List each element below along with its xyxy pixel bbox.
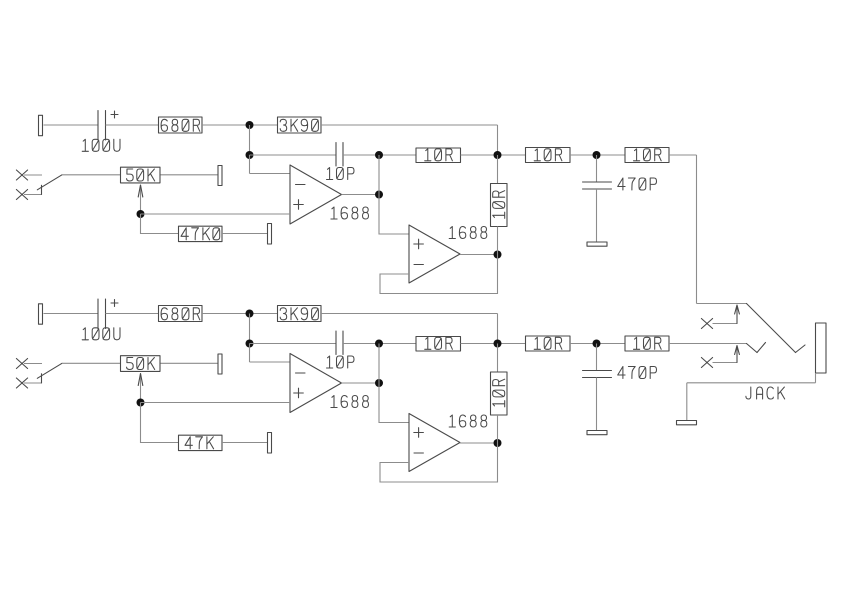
- wire to jack tip: [669, 154, 697, 156]
- node Ea: [375, 191, 383, 199]
- wiper arrow: [140, 374, 142, 403]
- node Ba: [246, 151, 254, 159]
- wire: [161, 174, 219, 176]
- wire: [460, 254, 498, 256]
- wire: [570, 343, 625, 345]
- node Ca: [375, 151, 383, 159]
- resistor R4 10R: [526, 148, 571, 163]
- input terminal J2: [39, 304, 43, 324]
- switch blade: [37, 363, 62, 378]
- wire: [342, 194, 380, 196]
- jack sleeve: [816, 323, 827, 373]
- capacitor C4 100U: [97, 299, 99, 329]
- resistor R14 10R vertical: [497, 344, 499, 373]
- switch S2 contact X: [16, 359, 27, 369]
- switch blade: [37, 175, 62, 190]
- wire: [460, 442, 498, 444]
- node Wb: [137, 399, 145, 407]
- potentiometer R7 50K: [121, 167, 161, 183]
- wire: [141, 214, 179, 234]
- wire: [141, 403, 179, 443]
- wire: [321, 313, 498, 315]
- wire: [497, 125, 499, 155]
- wire: [41, 374, 43, 383]
- node Aa: [246, 121, 254, 129]
- terminal: [218, 166, 222, 186]
- wire: [249, 155, 251, 174]
- wire: [161, 362, 219, 364]
- node Fa: [593, 151, 601, 159]
- resistor R1 680R: [159, 117, 203, 133]
- wire: [62, 174, 120, 176]
- wire: [249, 344, 251, 363]
- wire: [41, 185, 43, 194]
- terminal: [268, 224, 272, 245]
- wire sleeve to ground: [815, 373, 817, 383]
- resistor R6 10R vertical: [497, 155, 499, 184]
- wire: [713, 323, 738, 325]
- capacitor C3 470P: [596, 155, 598, 182]
- node Gb: [494, 439, 502, 447]
- wire: [24, 194, 42, 196]
- wire feedback: [380, 255, 498, 294]
- ground: [587, 242, 607, 246]
- node Da: [494, 151, 502, 159]
- node Cb: [375, 340, 383, 348]
- switch S1 contact X: [16, 170, 27, 180]
- resistor R12 10R: [526, 336, 571, 351]
- resistor R10 3K90: [278, 306, 322, 322]
- input terminal J1: [39, 115, 43, 135]
- jack tip contact: [747, 304, 796, 353]
- resistor R11 10R: [416, 337, 461, 352]
- wire to jack ring: [669, 343, 747, 345]
- wire: [24, 382, 42, 384]
- wire: [343, 154, 416, 156]
- wire: [202, 313, 278, 315]
- wire: [379, 195, 409, 235]
- resistor R5 10R: [625, 148, 669, 163]
- wire: [343, 343, 416, 345]
- wire: [44, 124, 99, 126]
- op-amp U3 1688: [290, 354, 342, 413]
- node Wa: [137, 210, 145, 218]
- switch S1 contact X: [16, 190, 27, 200]
- wire: [713, 362, 738, 364]
- capacitor C1 100U: [97, 111, 99, 141]
- wire: [321, 124, 498, 126]
- node Db: [494, 340, 502, 348]
- wire: [461, 343, 526, 345]
- wire: [24, 174, 42, 176]
- wire: [249, 125, 251, 155]
- wire: [379, 383, 409, 423]
- wire: [106, 313, 159, 315]
- wire: [202, 124, 278, 126]
- op-amp U2 1688 buffer: [409, 225, 460, 283]
- jack ring switch terminal X: [701, 358, 712, 368]
- wire: [24, 363, 42, 365]
- capacitor C5 10P: [335, 331, 337, 355]
- ground: [677, 421, 697, 425]
- wire: [141, 402, 291, 404]
- terminal: [218, 354, 222, 374]
- wire: [497, 314, 499, 344]
- wiper arrow: [140, 185, 142, 214]
- tip switch arrow: [736, 306, 738, 324]
- switch S2 contact X: [16, 378, 27, 388]
- wire: [106, 124, 159, 126]
- wire: [141, 213, 291, 215]
- op-amp U4 1688 buffer: [409, 414, 460, 472]
- terminal: [268, 433, 272, 454]
- ring switch arrow: [736, 347, 738, 363]
- wire: [249, 314, 251, 344]
- capacitor C6 470P: [596, 344, 598, 371]
- resistor R16 47K: [179, 435, 223, 450]
- label JACK: [746, 387, 785, 399]
- wire: [570, 154, 625, 156]
- wire: [250, 154, 337, 156]
- node Bb: [246, 340, 254, 348]
- wire: [250, 361, 291, 363]
- jack tip switch terminal X: [701, 319, 712, 329]
- wire: [250, 343, 337, 345]
- resistor R9 680R: [159, 306, 203, 322]
- resistor R3 10R: [416, 148, 461, 163]
- resistor R8 47K0: [179, 226, 223, 241]
- potentiometer R15 50K: [121, 356, 161, 372]
- node Ab: [246, 310, 254, 318]
- wire: [250, 173, 291, 175]
- wire: [222, 233, 268, 235]
- wire: [44, 313, 99, 315]
- op-amp U1 1688: [290, 165, 342, 224]
- node Fb: [593, 340, 601, 348]
- wire: [378, 155, 380, 195]
- wire: [461, 154, 526, 156]
- node Eb: [375, 379, 383, 387]
- resistor R13 10R: [625, 336, 669, 351]
- node Ga: [494, 251, 502, 259]
- wire feedback: [380, 443, 498, 482]
- jack ring contact: [747, 344, 758, 353]
- wire: [342, 382, 380, 384]
- resistor R2 3K90: [278, 117, 322, 133]
- ground: [587, 431, 607, 435]
- wire: [378, 344, 380, 384]
- wire: [222, 442, 268, 444]
- capacitor C2 10P: [335, 143, 337, 167]
- wire: [62, 362, 120, 364]
